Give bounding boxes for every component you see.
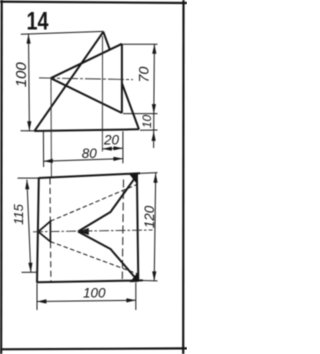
dim 70: bottom arrowhead [152, 104, 156, 114]
dim 100 plan: right extension line [135, 283, 137, 311]
dim 100 plan: right arrowhead [126, 298, 135, 302]
plan view: left edge [37, 177, 39, 282]
plan view: arrowhead at N [78, 228, 89, 235]
border frame right line [182, 0, 185, 354]
plan view: hidden hole edge upper (dashed) [50, 185, 136, 222]
dim 120: top arrowhead [153, 173, 157, 183]
dim 100 plan: dimension line [37, 300, 136, 301]
dim 10: dimension line tail [153, 114, 155, 148]
svg-text:70: 70 [135, 66, 151, 82]
plan view: hidden hole edge lower (dashed) [50, 242, 138, 274]
dim 100 front: top arrowhead [27, 34, 31, 44]
svg-text:115: 115 [11, 203, 26, 224]
plan view: intersection polyline upper [78, 175, 137, 231]
plan view: intersection polyline lower [78, 232, 138, 282]
plan view: bottom-right corner wedge (filled) [131, 272, 139, 282]
svg-text:100: 100 [13, 62, 30, 88]
dim 80: left extension line [42, 131, 44, 167]
dim 100 plan: left extension line [36, 284, 38, 311]
svg-text:120: 120 [142, 205, 157, 228]
dim 20: right extension line [122, 131, 124, 163]
dim 80: right arrowhead [113, 157, 123, 161]
svg-text:20: 20 [103, 133, 120, 148]
dim 120: top extension line [140, 172, 158, 175]
plan view: horizontal centerline [33, 230, 153, 232]
front view: edge E-A (left edge of pyramid) [35, 32, 104, 131]
plan view: hole opening triangle on left slope [38, 221, 50, 241]
dim 20: dimension line [102, 147, 123, 150]
dim 120: bottom extension line [142, 280, 158, 282]
dim 100 front: bottom extension line [21, 130, 35, 132]
dim 100 plan: left arrowhead [37, 299, 46, 303]
front view: edge A-G (upper part of right pyramid edge) [103, 32, 109, 50]
dim 100 front: bottom arrowhead [27, 121, 31, 131]
dim 70: top extension line [123, 43, 158, 45]
projection line from B down to plan view [50, 79, 52, 178]
dim 120: bottom arrowhead [152, 271, 156, 281]
svg-text:14: 14 [27, 8, 49, 36]
dim 115: dimension line [27, 180, 31, 273]
plan view: top edge with overshoot [39, 173, 140, 178]
svg-text:80: 80 [82, 146, 98, 161]
svg-text:100: 100 [83, 286, 106, 301]
plan view: hidden base edge of hole below triangle (dashed) [50, 242, 52, 281]
front view: edge B-D (lower edge of prism hole) [51, 78, 122, 113]
plan view: hidden base edge of hole above triangle (dashed) [49, 179, 51, 221]
border frame bottom line [0, 347, 187, 350]
dim 80: dimension line [43, 159, 123, 162]
svg-text:10: 10 [140, 115, 154, 129]
dim 100 front: dimension line [28, 34, 31, 131]
plan view: top-right corner wedge (filled) [130, 174, 137, 183]
front view: edge H-F (lower part of right pyramid edge) [122, 83, 139, 129]
dim 80: left arrowhead [43, 159, 52, 163]
border frame left line [0, 0, 3, 354]
dim 120: dimension line [154, 173, 156, 281]
front view: edge C-D (back face of hole, vertical) [121, 44, 123, 113]
front view: hole axis centerline [39, 78, 133, 80]
plan view: bottom edge with overshoot [37, 280, 143, 282]
plan view: right edge [137, 174, 138, 281]
dim 70: top arrowhead [152, 44, 156, 54]
front view: base edge E-F [35, 129, 140, 131]
front view: edge B-C (upper edge of prism hole) [51, 44, 122, 78]
dim 70: dimension line [153, 44, 156, 113]
dim 10: bottom extension line at F [140, 129, 158, 131]
dim 100 front: top extension line [21, 31, 104, 34]
dim 10: bottom arrowhead [152, 131, 156, 141]
dim 20: right arrowhead [114, 146, 123, 150]
dim 70: bottom extension line at D [123, 113, 158, 115]
dim 115: top arrowhead [25, 180, 29, 190]
dim 115: bottom extension line [22, 271, 38, 273]
dim 115: top extension line [18, 177, 39, 179]
plan view: hidden back face of hole (dashed vertical) [122, 180, 123, 280]
dim 115: bottom arrowhead [28, 263, 32, 272]
front view: projection line below apex [101, 36, 103, 152]
border frame top line [0, 2, 187, 3]
dim 20: left arrowhead [102, 147, 111, 151]
